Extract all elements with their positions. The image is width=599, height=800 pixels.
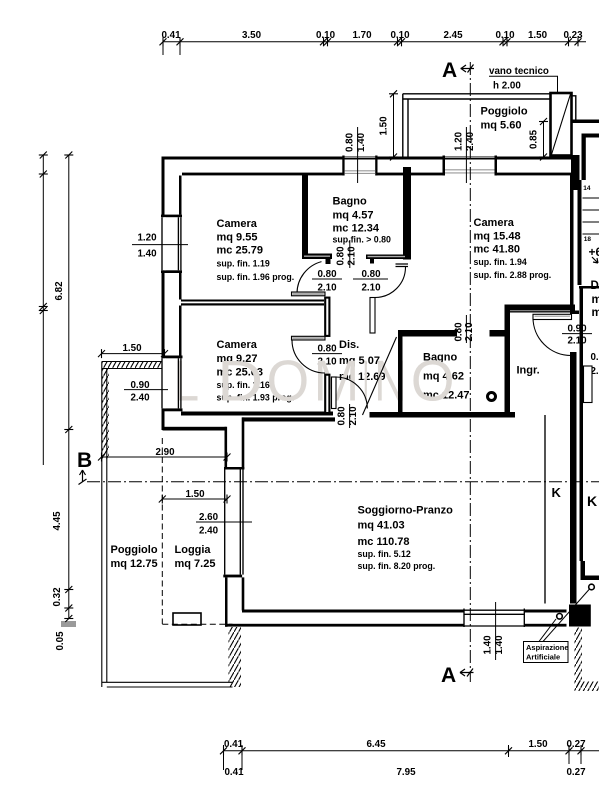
svg-text:14: 14 [583, 185, 591, 192]
svg-text:Aspirazione: Aspirazione [526, 643, 569, 652]
svg-text:0.80: 0.80 [336, 246, 347, 266]
svg-text:1.40: 1.40 [483, 635, 494, 655]
svg-text:I: I [363, 350, 369, 414]
svg-text:mq 41.03: mq 41.03 [358, 520, 405, 532]
svg-text:vano tecnico: vano tecnico [489, 66, 549, 77]
svg-text:Ingr.: Ingr. [517, 365, 540, 377]
svg-text:0.80: 0.80 [345, 132, 356, 152]
svg-text:0.41: 0.41 [224, 739, 244, 750]
svg-text:mc 12.34: mc 12.34 [333, 223, 380, 235]
svg-text:0.27: 0.27 [566, 767, 586, 778]
svg-text:2.40: 2.40 [130, 393, 150, 404]
svg-text:O: O [411, 350, 455, 414]
svg-text:2.10: 2.10 [361, 283, 381, 294]
svg-text:1.50: 1.50 [185, 489, 205, 500]
svg-text:3.50: 3.50 [242, 30, 262, 41]
svg-text:0.80: 0.80 [361, 269, 381, 280]
svg-text:mc 110.78: mc 110.78 [358, 536, 410, 548]
svg-text:4.45: 4.45 [52, 511, 63, 531]
svg-text:0.05: 0.05 [55, 631, 66, 651]
svg-text:2.40: 2.40 [199, 526, 219, 537]
svg-text:D: D [217, 350, 263, 414]
svg-text:0.41: 0.41 [161, 30, 181, 41]
svg-text:Camera: Camera [474, 217, 515, 229]
svg-text:+6: +6 [589, 245, 599, 259]
svg-text:sup.fin. > 0.80: sup.fin. > 0.80 [333, 235, 392, 245]
svg-text:mq 4.57: mq 4.57 [333, 210, 374, 222]
svg-text:mc 41.80: mc 41.80 [474, 244, 520, 256]
svg-text:1.20: 1.20 [137, 233, 157, 244]
svg-text:O: O [267, 350, 310, 414]
svg-text:0.80: 0.80 [317, 269, 337, 280]
svg-text:0.90: 0.90 [567, 324, 587, 335]
svg-text:K: K [552, 485, 562, 500]
svg-text:7.95: 7.95 [396, 767, 416, 778]
svg-text:6.82: 6.82 [54, 281, 65, 301]
svg-text:18: 18 [584, 236, 592, 243]
svg-text:Bagno: Bagno [333, 196, 368, 208]
svg-text:Camera: Camera [217, 218, 258, 230]
svg-text:0.80: 0.80 [590, 352, 599, 363]
svg-text:Loggia: Loggia [175, 544, 212, 556]
svg-text:2.60: 2.60 [199, 512, 219, 523]
svg-text:mc 25.79: mc 25.79 [217, 245, 263, 257]
svg-text:1.50: 1.50 [379, 116, 390, 136]
svg-text:A: A [441, 664, 456, 687]
svg-text:sup. fin. 8.20 prog.: sup. fin. 8.20 prog. [358, 561, 436, 571]
svg-text:K: K [587, 493, 597, 509]
svg-text:0.85: 0.85 [529, 129, 540, 149]
svg-text:1.20: 1.20 [454, 131, 465, 151]
svg-text:h 2.00: h 2.00 [493, 81, 521, 92]
svg-text:6.45: 6.45 [366, 739, 386, 750]
svg-text:1.50: 1.50 [528, 30, 548, 41]
svg-text:Poggiolo: Poggiolo [481, 106, 528, 118]
svg-text:Artificiale: Artificiale [526, 653, 560, 662]
svg-text:m: m [592, 294, 599, 306]
svg-text:2.10: 2.10 [347, 246, 358, 266]
svg-text:sup. fin. 2.88 prog.: sup. fin. 2.88 prog. [474, 270, 552, 280]
svg-text:1.40: 1.40 [137, 249, 157, 260]
svg-text:mq 12.75: mq 12.75 [111, 558, 158, 570]
svg-text:mq 15.48: mq 15.48 [474, 231, 521, 243]
svg-text:1.50: 1.50 [528, 739, 548, 750]
svg-text:2.90: 2.90 [155, 447, 175, 458]
svg-text:mq 7.25: mq 7.25 [175, 558, 216, 570]
svg-text:0.32: 0.32 [52, 587, 63, 607]
svg-text:Soggiorno-Pranzo: Soggiorno-Pranzo [358, 505, 454, 517]
svg-text:2.10: 2.10 [464, 322, 475, 342]
svg-text:B: B [77, 449, 92, 472]
svg-text:2.10: 2.10 [567, 336, 587, 347]
svg-text:Poggiolo: Poggiolo [111, 544, 158, 556]
svg-text:sup. fin. 1.96 prog.: sup. fin. 1.96 prog. [217, 272, 295, 282]
svg-text:0.41: 0.41 [224, 767, 244, 778]
svg-text:sup. fin. 1.94: sup. fin. 1.94 [474, 257, 527, 267]
svg-text:1.50: 1.50 [122, 343, 142, 354]
svg-text:2.45: 2.45 [443, 30, 463, 41]
svg-text:mq 9.55: mq 9.55 [217, 232, 258, 244]
svg-text:m: m [592, 307, 599, 319]
svg-text:sup. fin. 1.19: sup. fin. 1.19 [217, 259, 270, 269]
svg-text:mq 5.60: mq 5.60 [481, 120, 522, 132]
svg-text:sup. fin. 5.12: sup. fin. 5.12 [358, 549, 411, 559]
svg-text:1.70: 1.70 [352, 30, 372, 41]
svg-text:A: A [442, 59, 457, 82]
